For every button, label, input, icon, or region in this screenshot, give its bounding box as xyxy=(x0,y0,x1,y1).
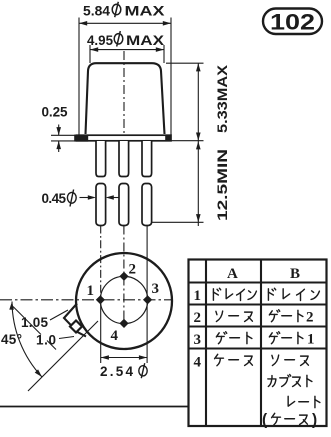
svg-text:B: B xyxy=(290,266,300,282)
svg-text:1: 1 xyxy=(87,283,95,299)
svg-text:MAX: MAX xyxy=(126,33,164,48)
svg-text:1: 1 xyxy=(307,332,315,348)
svg-text:2.54: 2.54 xyxy=(100,364,133,379)
svg-text:3: 3 xyxy=(194,332,202,348)
svg-text:): ) xyxy=(312,412,317,429)
svg-text:2: 2 xyxy=(306,310,314,326)
svg-text:4.95: 4.95 xyxy=(87,33,113,48)
svg-text:1.0: 1.0 xyxy=(36,333,56,348)
svg-text:1.05: 1.05 xyxy=(21,315,48,330)
svg-text:5.33MAX: 5.33MAX xyxy=(215,65,230,133)
svg-text:4: 4 xyxy=(194,355,202,371)
svg-text:0.25: 0.25 xyxy=(42,105,68,120)
svg-text:0.45: 0.45 xyxy=(42,191,67,206)
svg-text:1: 1 xyxy=(194,288,202,304)
svg-text:A: A xyxy=(227,266,238,282)
svg-text:102: 102 xyxy=(270,10,315,35)
svg-text:2: 2 xyxy=(194,310,202,326)
svg-text:12.5MIN: 12.5MIN xyxy=(215,149,230,221)
svg-text:5.84: 5.84 xyxy=(83,4,110,19)
svg-text:45°: 45° xyxy=(1,332,22,347)
svg-text:MAX: MAX xyxy=(125,4,165,19)
svg-text:2: 2 xyxy=(129,262,137,278)
svg-text:(: ( xyxy=(262,412,268,429)
svg-text:3: 3 xyxy=(152,281,160,297)
svg-text:4: 4 xyxy=(111,328,119,344)
